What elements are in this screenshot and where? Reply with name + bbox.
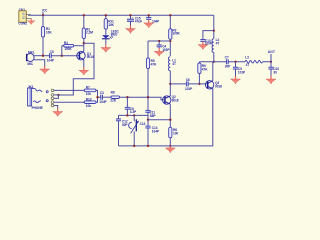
wire jack pin4 to R10 (54, 101, 84, 103)
resistor R2 (82, 15, 93, 51)
svg-text:104P: 104P (99, 100, 107, 104)
node emitter junction (169, 119, 171, 121)
resistor R11 (104, 15, 114, 29)
power port VCC (42, 8, 48, 15)
wire VCC right drop (213, 15, 215, 38)
svg-text:30: 30 (273, 71, 277, 75)
ground arrow LED1 (101, 44, 111, 52)
svg-text:CON2: CON2 (18, 22, 27, 26)
ground arrow C13b (198, 41, 208, 49)
resistor R9 (198, 62, 208, 84)
svg-text:30P: 30P (122, 123, 128, 127)
ground arrow R6 (165, 145, 175, 153)
svg-text:47K: 47K (151, 62, 157, 66)
wire mic bottom to ground (37, 60, 45, 66)
svg-text:VCC: VCC (42, 8, 48, 12)
wire C5 to Q1 base (51, 55, 79, 57)
ground arrow C16 (144, 20, 154, 28)
transistor Q2 (163, 95, 179, 104)
capacitor C15 (127, 15, 142, 25)
net label ANT (268, 50, 275, 62)
resistor R8 (110, 91, 119, 103)
node ANT junction (270, 61, 272, 63)
node R6 ground junction (169, 145, 171, 147)
capacitor C7 (225, 56, 232, 69)
ground arrow C15 (126, 25, 136, 33)
node R11 rail junction (105, 14, 107, 16)
node C9 junction (234, 61, 236, 63)
svg-text:10K: 10K (46, 30, 52, 34)
capacitor C12 (116, 115, 128, 145)
inductor L1 (169, 57, 177, 96)
svg-text:10K: 10K (108, 23, 114, 27)
svg-text:100: 100 (173, 132, 178, 136)
node jack mix junction (57, 94, 59, 96)
resistor R4 (62, 41, 84, 56)
node C11/emitter wire junction (147, 119, 149, 121)
wire C6 to Q3 base (188, 83, 208, 85)
capacitor C13b 100P (200, 39, 213, 45)
svg-text:9018: 9018 (215, 84, 222, 88)
LED LED1 (102, 29, 119, 44)
node C14 rail junction (147, 145, 149, 147)
ground arrow C4 (154, 48, 164, 56)
node trimmer rail junction (133, 145, 135, 147)
svg-text:9018: 9018 (172, 98, 179, 102)
capacitor C10 (268, 62, 279, 76)
svg-text:22K: 22K (110, 99, 116, 103)
inductor L3 (245, 56, 263, 67)
resistor R3 (169, 15, 181, 56)
base wire line (98, 96, 101, 98)
transistor Q3 (205, 81, 222, 89)
svg-text:101P: 101P (185, 87, 193, 91)
node RF junction (213, 61, 215, 63)
wire Q2 emitter down (169, 104, 171, 127)
wire jack pin5 to ground (54, 106, 58, 109)
capacitor C14 (145, 126, 160, 146)
capacitor C9 (233, 62, 246, 76)
node R2 rail junction (83, 14, 85, 16)
svg-text:3.3P: 3.3P (130, 110, 137, 114)
svg-text:47K: 47K (202, 67, 208, 71)
wire collector to C6 (170, 83, 186, 85)
node R5 base junction (147, 96, 149, 98)
wire Q3 collector up (212, 62, 214, 81)
resistor R10 (84, 97, 96, 108)
svg-text:10k: 10k (86, 104, 91, 108)
wire emitter tap (148, 119, 170, 121)
node C15 rail junction (129, 14, 131, 16)
svg-text:68P: 68P (150, 114, 156, 118)
svg-text:4T: 4T (246, 63, 250, 67)
svg-text:MIC: MIC (27, 62, 33, 66)
svg-text:L3: L3 (245, 56, 249, 60)
node R3 rail junction (169, 14, 171, 16)
svg-text:C3: C3 (100, 91, 104, 95)
inductor L2 (212, 38, 219, 62)
phone jack JK1 (28, 85, 54, 110)
node C8 bottom junction (126, 114, 128, 116)
ground arrow jack (53, 108, 63, 116)
transistor Q1 (77, 52, 94, 60)
ground arrow C9 (231, 76, 241, 84)
ground arrow at CN1 pin2 (27, 18, 35, 24)
ground arrow Q1 emitter (79, 67, 89, 75)
node Q2 collector junction (169, 83, 171, 85)
svg-text:104P: 104P (47, 59, 55, 63)
capacitor C8 (125, 97, 137, 115)
svg-text:101P: 101P (238, 70, 246, 74)
svg-text:2.2M: 2.2M (86, 31, 93, 35)
svg-text:R8: R8 (111, 91, 115, 95)
wire C3 to R8 (103, 96, 112, 98)
capacitor C16 104P (146, 15, 160, 23)
svg-text:10k: 10k (86, 92, 91, 96)
wire top VCC rail (28, 14, 214, 16)
svg-text:ANT: ANT (268, 50, 275, 54)
node L2 top junction (213, 29, 215, 31)
wire jack pin1 to R7 (54, 89, 84, 91)
node R4 tap junction (61, 55, 63, 57)
trimmer capacitor C13 (129, 115, 146, 145)
microphone MK1 (26, 50, 37, 66)
svg-text:PHONE: PHONE (32, 106, 43, 110)
svg-text:100K: 100K (64, 47, 72, 51)
node R9 base junction (198, 83, 200, 85)
node R1/mic junction (42, 55, 44, 57)
wire Q1 emitter to ground (83, 60, 85, 67)
svg-text:4T: 4T (216, 42, 220, 46)
svg-text:104P: 104P (152, 130, 160, 134)
svg-text:C7: C7 (225, 56, 229, 60)
svg-text:RED: RED (111, 32, 118, 36)
capacitor C4 (157, 41, 171, 52)
capacitor C5 (47, 50, 55, 63)
wire to C13b (203, 31, 214, 40)
node C8 junction (126, 96, 128, 98)
wire R7/R10 to C3 node (96, 90, 98, 102)
capacitor C11 (145, 97, 156, 126)
capacitor C3 (99, 91, 107, 104)
wire collector feed to mixer (58, 43, 94, 95)
wire jack pin2 stub (54, 95, 59, 99)
ground arrow C10 (266, 76, 276, 84)
node C3 input junction (96, 96, 98, 98)
svg-text:47uF: 47uF (135, 20, 142, 24)
connector CN1 (18, 8, 31, 26)
svg-text:4T: 4T (172, 62, 176, 66)
wire H1 (119, 114, 149, 116)
resistor R6 (169, 127, 179, 146)
node trimmer top junction (133, 114, 135, 116)
wire mic top to C5 (37, 55, 50, 57)
ground arrow below mic (40, 66, 50, 74)
wire tank feed (148, 40, 170, 42)
svg-text:30P: 30P (225, 64, 231, 68)
wire R8 to Q2 base (120, 97, 165, 100)
resistor R5 (146, 41, 157, 97)
capacitor C6 (185, 78, 193, 91)
bottom rail wire (119, 89, 213, 146)
resistor R1 (41, 15, 52, 55)
wire RF node rail (199, 61, 271, 63)
node VCC junction (42, 14, 44, 16)
svg-text:C13: C13 (140, 122, 146, 126)
node C16 rail junction (148, 14, 150, 16)
node R3/C4 junction (169, 40, 171, 42)
svg-text:9014: 9014 (87, 55, 94, 59)
resistor R7 (84, 86, 96, 97)
svg-text:100K: 100K (172, 31, 180, 35)
node R2/Q1 collector junction (83, 42, 85, 44)
